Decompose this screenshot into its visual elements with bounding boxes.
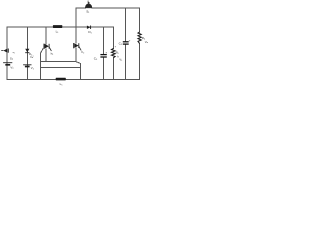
wire right edge vertical upper [139, 8, 141, 32]
wire Q1 gate diagonal [41, 49, 43, 53]
wire h2 drop vertical [80, 63, 82, 79]
diode D1 [87, 26, 92, 34]
svg-text:h₁: h₁ [51, 52, 54, 56]
capacitor C3 [94, 51, 108, 61]
wire Q1 collector vertical [45, 27, 47, 44]
capacitor C2 [119, 39, 131, 46]
inductor L1 [53, 25, 62, 33]
battery B1 [3, 56, 14, 69]
wire C2 branch vertical upper [125, 8, 127, 41]
wire C3 branch vertical lower [103, 57, 105, 79]
switch S1 [85, 0, 92, 13]
svg-text:S₁: S₁ [86, 10, 89, 14]
svg-text:D₁: D₁ [88, 30, 91, 34]
battery B2 [23, 55, 34, 70]
wire R5 branch vertical lower [112, 58, 114, 80]
diode D3 on left edge [1, 49, 14, 55]
resistor R5 [112, 46, 123, 62]
wire h2 horizontal [41, 66, 81, 68]
wire top-to-mid vertical [75, 8, 77, 27]
wire C3 branch vertical upper [103, 27, 105, 54]
wire Q2 cathode vertical [75, 48, 77, 61]
resistor R4 [138, 32, 149, 44]
wire right edge vertical lower [139, 44, 141, 80]
wire second left vertical [26, 27, 28, 79]
wire Q2 anode vertical [75, 27, 77, 43]
wire C2 branch vertical lower [125, 44, 127, 79]
wire top rail right segment [92, 7, 140, 9]
svg-text:V₂: V₂ [31, 66, 34, 70]
wire Q1 cathode vertical [45, 49, 47, 62]
inductor L2 [56, 78, 66, 86]
wire left edge vertical [6, 27, 8, 79]
svg-text:L₁: L₁ [56, 30, 59, 34]
diode D2 [25, 49, 32, 56]
wire h1-to-drop diagonal [76, 62, 80, 64]
wire top rail left segment [76, 7, 86, 9]
wire mid rail [7, 26, 114, 28]
wire h1 horizontal [41, 61, 76, 63]
thyristor Q1 [44, 44, 53, 56]
svg-text:V₅: V₅ [119, 58, 122, 62]
svg-text:+: + [105, 51, 107, 55]
thyristor Q2 [74, 43, 85, 54]
svg-text:+: + [129, 39, 131, 43]
wire R5 branch vertical upper [113, 27, 115, 48]
wire bottom rail [7, 78, 140, 80]
svg-text:ₐ₁: ₐ₁ [13, 50, 15, 54]
wire gate drop vertical [40, 53, 42, 79]
